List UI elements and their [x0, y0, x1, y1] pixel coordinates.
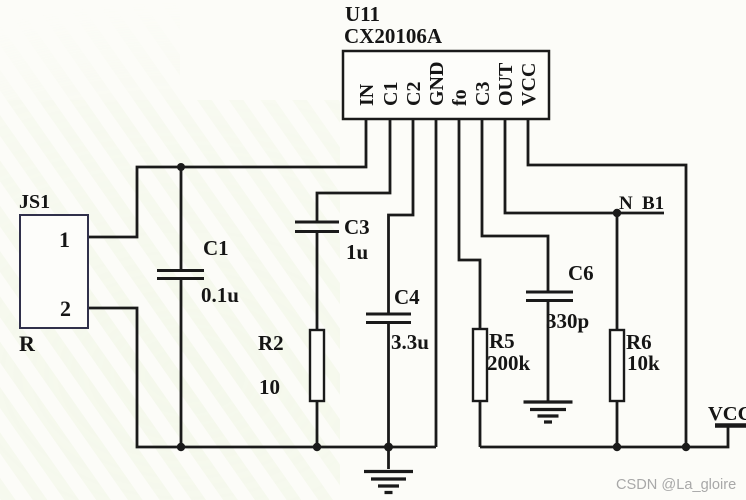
svg-text:C3: C3	[472, 82, 494, 106]
junction dot bottom R6	[613, 443, 621, 451]
svg-text:10: 10	[259, 375, 280, 399]
op-amp U11 body	[343, 51, 549, 119]
svg-text:IN: IN	[356, 83, 378, 106]
svg-text:0.1u: 0.1u	[201, 283, 239, 307]
wire bottom right rail to VCC symbol	[480, 425, 728, 447]
wire C3 to R2	[316, 232, 319, 330]
svg-text:2: 2	[60, 296, 71, 321]
wire N B1 to R6	[616, 213, 619, 330]
capacitor C4	[366, 314, 411, 323]
wire R5 bottom	[479, 401, 482, 447]
wire pin IN to JS1 pin 1	[88, 119, 366, 237]
svg-text:R: R	[19, 331, 36, 356]
svg-text:C1: C1	[203, 236, 229, 260]
node N B1 junction	[613, 209, 621, 217]
svg-text:3.3u: 3.3u	[391, 330, 429, 354]
svg-text:fo: fo	[449, 89, 471, 106]
wire C1 top	[180, 167, 183, 269]
resistor R2	[310, 330, 324, 401]
wire pin VCC to VCC rail	[528, 119, 686, 447]
wire R6 bottom	[616, 401, 619, 447]
svg-text:C4: C4	[394, 285, 420, 309]
VCC power symbol bar	[715, 423, 746, 428]
svg-text:U11: U11	[345, 2, 380, 26]
svg-text:B1: B1	[642, 193, 664, 214]
svg-text:C2: C2	[403, 82, 425, 106]
node junction C1 top	[177, 163, 185, 171]
svg-text:C1: C1	[380, 82, 402, 106]
svg-text:CSDN @La_gloire: CSDN @La_gloire	[616, 477, 736, 493]
wire pin C3 to capacitor C6	[482, 119, 548, 291]
resistor R6	[610, 330, 624, 401]
junction dot bottom VCC rail	[682, 443, 690, 451]
svg-text:CX20106A: CX20106A	[344, 24, 443, 48]
svg-text:1u: 1u	[346, 240, 369, 264]
wire pin C2 to capacitor C4	[389, 119, 414, 313]
wire pin C1 to capacitor C3	[317, 119, 390, 221]
svg-text:VCC: VCC	[518, 63, 540, 106]
junction dot bottom C1	[177, 443, 185, 451]
svg-text:OUT: OUT	[495, 62, 517, 106]
svg-text:200k: 200k	[487, 351, 531, 375]
wire pin fo to R5	[459, 119, 480, 329]
ground main under C4	[387, 447, 390, 469]
resistor R5	[473, 329, 487, 401]
svg-text:R2: R2	[258, 331, 284, 355]
junction dot bottom C4/ground	[384, 443, 393, 452]
wire JS1 pin 2 to bottom rail	[88, 308, 436, 447]
svg-text:VCC: VCC	[708, 403, 746, 425]
connector JS1 box	[20, 215, 88, 328]
capacitor C6	[526, 292, 573, 301]
svg-text:1: 1	[59, 227, 70, 252]
wire C4 bottom	[387, 323, 390, 447]
junction dot bottom R2	[313, 443, 321, 451]
svg-text:GND: GND	[426, 62, 448, 106]
wire GND pin	[435, 119, 438, 447]
svg-text:C3: C3	[344, 215, 370, 239]
svg-text:N: N	[619, 193, 633, 214]
ground under C6	[524, 402, 573, 422]
wire C1 bottom	[180, 279, 183, 447]
capacitor C1	[157, 271, 204, 279]
svg-text:C6: C6	[568, 261, 594, 285]
svg-text:10k: 10k	[627, 351, 660, 375]
wire C6 bottom	[547, 301, 550, 401]
capacitor C3	[295, 222, 339, 232]
svg-text:JS1: JS1	[19, 191, 50, 213]
wire pin OUT to node N B1	[505, 119, 664, 213]
svg-text:R5: R5	[489, 329, 515, 353]
wire R2 bottom	[316, 401, 319, 447]
svg-text:330p: 330p	[546, 309, 589, 333]
